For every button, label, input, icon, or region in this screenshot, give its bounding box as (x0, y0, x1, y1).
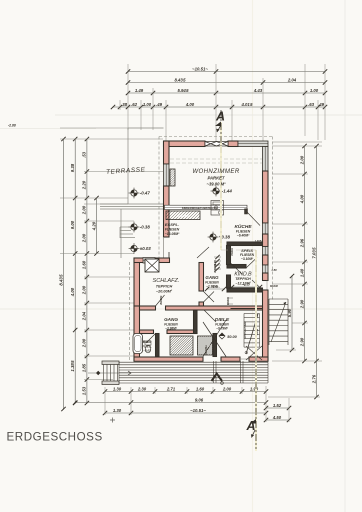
svg-text:50.00: 50.00 (227, 335, 237, 339)
svg-text:1.60: 1.60 (196, 386, 205, 391)
svg-text:-0.47: -0.47 (140, 190, 151, 195)
svg-text:~1.98M²: ~1.98M² (206, 285, 219, 289)
svg-text:~10.51~: ~10.51~ (190, 408, 206, 413)
svg-text:2.00: 2.00 (82, 205, 87, 215)
svg-text:1.30: 1.30 (113, 386, 122, 391)
svg-text:17STG 17.6/28: 17STG 17.6/28 (244, 321, 247, 339)
svg-text:TEPPICH: TEPPICH (235, 277, 251, 281)
svg-text:A: A (215, 110, 225, 124)
svg-text:BAD: BAD (143, 339, 152, 344)
svg-text:100/201: 100/201 (204, 345, 208, 355)
svg-text:~6.40M²: ~6.40M² (237, 234, 250, 238)
svg-text:4.00: 4.00 (185, 102, 195, 107)
svg-text:1.90: 1.90 (250, 386, 259, 391)
svg-text:1.85: 1.85 (82, 363, 87, 372)
svg-text:80/201: 80/201 (159, 295, 163, 305)
svg-text:1.52: 1.52 (273, 403, 282, 408)
svg-text:2.20: 2.20 (82, 180, 87, 190)
svg-text:WOHNZIMMER: WOHNZIMMER (192, 168, 240, 175)
svg-text:1.50: 1.50 (271, 268, 277, 272)
svg-text:GANG: GANG (164, 317, 178, 322)
svg-text:FLIESEN: FLIESEN (165, 228, 180, 232)
svg-text:9.00: 9.00 (70, 220, 75, 229)
svg-text:1.00: 1.00 (143, 102, 152, 107)
svg-text:4.00: 4.00 (299, 194, 304, 204)
svg-text:PARKET: PARKET (208, 176, 225, 181)
svg-text:~13.05M²: ~13.05M² (165, 232, 180, 236)
svg-text:4.50: 4.50 (272, 415, 282, 420)
svg-text:2.04: 2.04 (82, 311, 87, 321)
svg-text:2.00: 2.00 (82, 338, 87, 348)
svg-text:80/200: 80/200 (270, 284, 278, 288)
svg-text:2.90: 2.90 (299, 337, 304, 347)
svg-text:70/201: 70/201 (230, 247, 234, 255)
svg-text:.53: .53 (82, 151, 87, 158)
svg-text:4.20: 4.20 (91, 221, 96, 231)
svg-text:~3.10M²: ~3.10M² (241, 257, 254, 261)
svg-text:9.06: 9.06 (195, 397, 204, 402)
svg-text:TEPPICH: TEPPICH (156, 285, 173, 289)
svg-text:80/201: 80/201 (226, 296, 230, 304)
svg-text:1.00: 1.00 (310, 88, 319, 93)
svg-text:~20.00M²: ~20.00M² (156, 290, 173, 294)
svg-text:.49: .49 (156, 102, 163, 107)
svg-text:KINDERWAGEN ABSTELLPL.: KINDERWAGEN ABSTELLPL. (182, 206, 219, 210)
svg-text:±0.03: ±0.03 (140, 246, 152, 251)
svg-text:~39.00 M²: ~39.00 M² (207, 182, 227, 187)
svg-text:2.00: 2.00 (82, 285, 87, 295)
svg-text:1.40: 1.40 (299, 268, 304, 277)
svg-text:2.04: 2.04 (287, 77, 297, 82)
svg-text:1.53: 1.53 (82, 386, 87, 395)
svg-text:80/201: 80/201 (213, 263, 217, 273)
svg-text:.63: .63 (308, 102, 315, 107)
svg-text:1.38 5: 1.38 5 (70, 360, 75, 372)
svg-text:5.94 5: 5.94 5 (177, 88, 189, 93)
svg-text:2.71: 2.71 (166, 386, 176, 391)
svg-text:4.00: 4.00 (70, 287, 75, 297)
svg-text:9.38: 9.38 (70, 163, 75, 172)
svg-text:4.43: 4.43 (253, 88, 263, 93)
svg-text:~12.12M²: ~12.12M² (235, 282, 251, 286)
svg-text:GARDER.: GARDER. (177, 214, 190, 218)
svg-text:~10.51~: ~10.51~ (192, 66, 208, 71)
svg-text:2.00: 2.00 (299, 155, 304, 165)
svg-text:~5.02: ~5.02 (143, 349, 151, 353)
svg-text:2.90: 2.90 (299, 299, 304, 309)
svg-text:SCHLAFZ.: SCHLAFZ. (152, 278, 179, 284)
svg-text:-1.44: -1.44 (222, 188, 233, 193)
svg-text:1.60: 1.60 (82, 260, 87, 269)
svg-text:~9.79M²: ~9.79M² (216, 327, 229, 331)
svg-text:.49: .49 (318, 102, 325, 107)
svg-text:7.03 5: 7.03 5 (311, 247, 316, 259)
svg-text:8.43 5: 8.43 5 (58, 274, 63, 286)
svg-text:ERDGESCHOSS: ERDGESCHOSS (7, 431, 103, 444)
svg-text:2.00: 2.00 (82, 233, 87, 243)
svg-text:GANG: GANG (205, 275, 219, 280)
svg-text:2.96: 2.96 (299, 238, 304, 248)
svg-text:-2.88: -2.88 (8, 124, 16, 128)
svg-text:2.30: 2.30 (137, 386, 147, 391)
svg-text:2.76: 2.76 (311, 374, 316, 384)
svg-text:8.43 5: 8.43 5 (174, 77, 186, 82)
svg-text:1.30: 1.30 (113, 408, 122, 413)
svg-text:4.01 5: 4.01 5 (240, 102, 253, 107)
svg-text:ESSPL.: ESSPL. (165, 222, 179, 227)
svg-text:~3.98M²: ~3.98M² (165, 327, 178, 331)
svg-text:1.49: 1.49 (135, 88, 144, 93)
svg-text:16x18: 16x18 (257, 328, 259, 335)
svg-text:.38: .38 (121, 102, 128, 107)
svg-text:.62: .62 (131, 102, 138, 107)
svg-text:1.00 5: 1.00 5 (255, 239, 262, 243)
svg-text:-0.38: -0.38 (140, 224, 151, 229)
svg-text:2.00: 2.00 (222, 386, 232, 391)
